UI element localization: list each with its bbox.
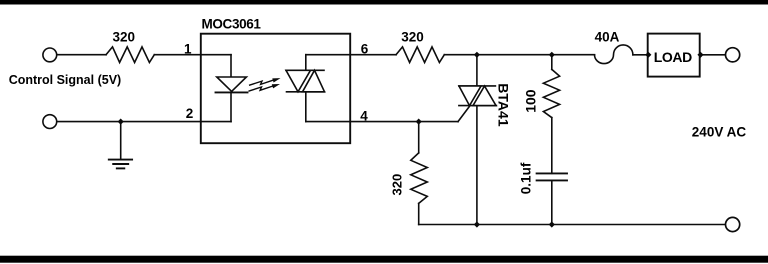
svg-text:320: 320 (401, 29, 424, 44)
svg-text:240V AC: 240V AC (692, 124, 747, 139)
svg-text:Control Signal (5V): Control Signal (5V) (9, 73, 122, 87)
svg-text:0.1uf: 0.1uf (519, 162, 534, 194)
svg-text:320: 320 (390, 174, 405, 196)
svg-text:6: 6 (361, 41, 369, 56)
svg-text:100: 100 (522, 89, 538, 113)
svg-text:4: 4 (360, 108, 368, 123)
svg-text:MOC3061: MOC3061 (202, 17, 262, 32)
svg-text:BTA41: BTA41 (496, 83, 512, 127)
svg-text:1: 1 (184, 41, 192, 56)
svg-text:320: 320 (113, 29, 136, 44)
svg-text:40A: 40A (595, 29, 620, 44)
svg-text:LOAD: LOAD (654, 49, 692, 65)
svg-text:2: 2 (186, 106, 194, 121)
